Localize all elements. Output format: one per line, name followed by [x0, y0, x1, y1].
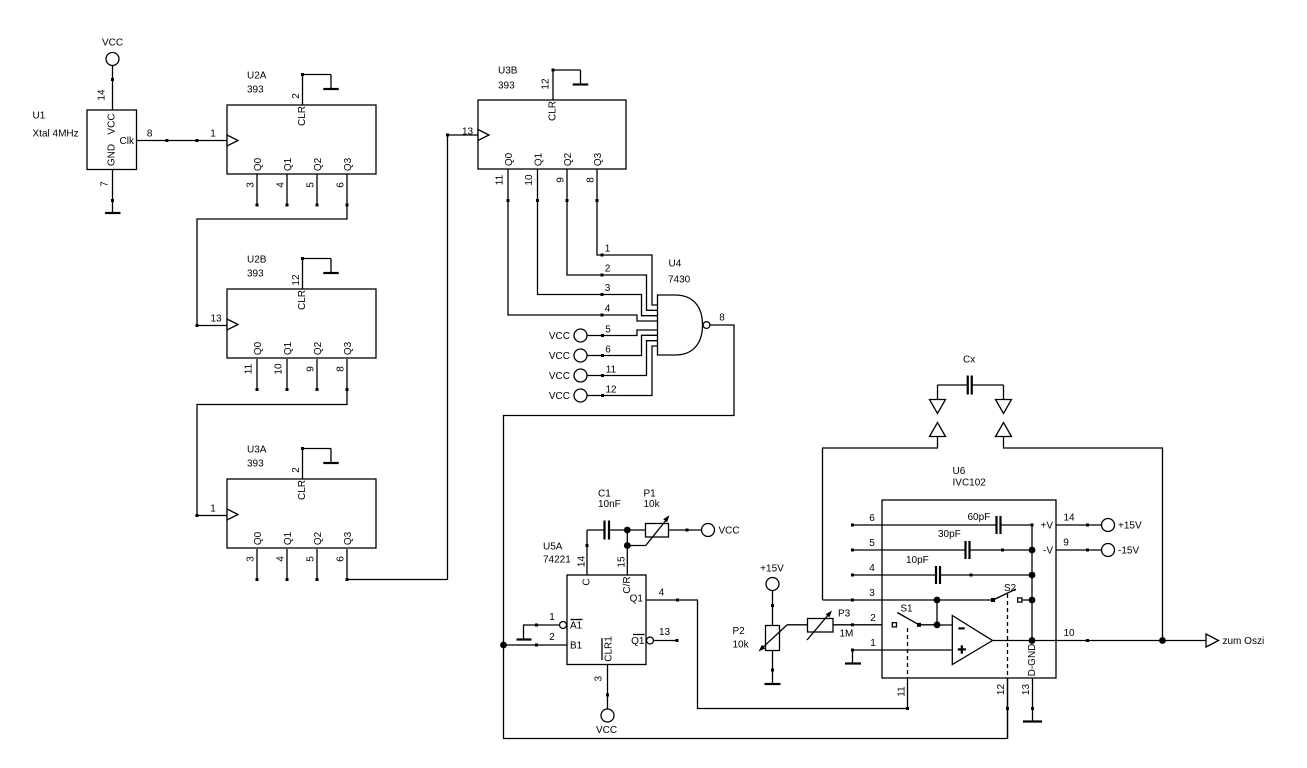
pin number 13 label U2B clock	[210, 314, 222, 325]
U4 reference designator	[669, 259, 682, 270]
nand gate U4 7430 body	[658, 295, 703, 355]
svg-text:Q1: Q1	[631, 636, 645, 647]
wire U2B Q0 pin 11	[256, 359, 259, 391]
U3B internal output label Q2	[563, 152, 574, 166]
svg-text:6: 6	[605, 345, 611, 356]
pin number 14 label U5A	[577, 556, 588, 568]
power +15V circle for U6	[1102, 519, 1142, 532]
svg-text:393: 393	[247, 85, 264, 96]
wire U5A C/R pin 15 to C1 P1 junction	[624, 527, 631, 575]
U3B internal output label Q3	[593, 152, 604, 166]
svg-text:CLR: CLR	[548, 101, 559, 121]
U5A internal pin label C	[582, 578, 593, 585]
U5A internal pin label B1	[570, 641, 583, 652]
svg-text:U3A: U3A	[247, 445, 267, 456]
svg-text:D-GND: D-GND	[1027, 644, 1038, 677]
svg-text:15: 15	[617, 556, 628, 568]
svg-text:Q1: Q1	[283, 341, 294, 355]
svg-text:7: 7	[100, 181, 111, 187]
potentiometer P2	[759, 625, 788, 652]
U6 value label IVC102	[953, 478, 987, 489]
svg-text:14: 14	[1063, 513, 1075, 524]
U5A internal pin label C/R	[622, 576, 633, 593]
svg-text:Q0: Q0	[504, 152, 515, 166]
wire U6 pin 12	[1007, 678, 1009, 739]
wire U5A A1 pin 1 to ground	[524, 624, 560, 640]
wire U2A Q2 pin 5	[316, 174, 319, 207]
U2B reference designator	[247, 255, 267, 266]
svg-text:11: 11	[495, 174, 506, 185]
wire U3A Q3 pin 6 to U3B clock pin 13	[346, 134, 479, 582]
svg-text:4: 4	[659, 588, 665, 599]
output net label zum Oszi	[1223, 636, 1265, 647]
svg-text:12: 12	[605, 385, 617, 396]
pin number 9 label U6	[1063, 538, 1069, 549]
pin number 5 label U2A Q2	[306, 182, 317, 188]
power VCC circle for U4 pin 11	[549, 369, 587, 382]
wire U3B Q3 pin 8 to U4 input 1	[596, 169, 658, 305]
svg-text:VCC: VCC	[549, 351, 570, 362]
U2A internal output label Q3	[343, 157, 354, 171]
switch S2	[937, 589, 1032, 602]
power VCC circle for U4 pin 12	[549, 389, 587, 402]
pin number 3 label U6	[869, 588, 875, 599]
svg-text:12: 12	[291, 274, 302, 286]
U5A internal pin label Q1 inverted	[631, 635, 645, 648]
svg-text:1M: 1M	[840, 629, 854, 640]
ground for P2	[765, 683, 781, 685]
wire U4 output pin 8 to U5A B1 pin 2 and U6 pin 12	[500, 325, 1009, 739]
wire U6 pin 3	[823, 599, 938, 602]
pin number 5 label U4	[605, 325, 611, 336]
svg-text:U2B: U2B	[247, 255, 267, 266]
pin number 6 label U2A Q3	[336, 182, 347, 188]
svg-text:Q1: Q1	[283, 157, 294, 171]
power VCC circle for U4 pin 5	[549, 329, 587, 342]
wire U3B Q2 pin 9 to U4 input 2	[566, 169, 658, 310]
U3A internal output label Q0	[253, 531, 264, 545]
svg-text:10pF: 10pF	[906, 555, 929, 566]
U5A A1 input inversion bubble	[560, 622, 567, 629]
counter U2A body	[227, 105, 376, 174]
U4 value label 7430	[668, 275, 691, 286]
svg-text:1: 1	[870, 638, 876, 649]
svg-text:C1: C1	[598, 489, 611, 500]
svg-text:12: 12	[996, 684, 1007, 696]
U2B internal pin label CLR	[297, 290, 308, 310]
svg-text:10: 10	[274, 363, 285, 375]
svg-text:VCC: VCC	[549, 331, 570, 342]
svg-text:12: 12	[541, 78, 552, 90]
wire U2B Q3 pin 8 to U3A clock pin 1	[196, 359, 349, 517]
svg-text:+15V: +15V	[760, 564, 784, 575]
svg-text:B1: B1	[570, 641, 583, 652]
svg-text:Q3: Q3	[343, 157, 354, 171]
potentiometer P1	[646, 515, 670, 545]
svg-text:+V: +V	[1040, 521, 1053, 532]
U6 internal pin label D-GND	[1027, 644, 1038, 677]
U3B internal pin label CLR	[548, 101, 559, 121]
U3A internal output label Q1	[283, 531, 294, 545]
svg-text:2: 2	[870, 613, 876, 624]
wire U2B Q1 pin 10	[286, 359, 289, 391]
wire U6 pin 4 stub	[851, 574, 882, 577]
svg-text:11: 11	[897, 686, 908, 697]
svg-text:10: 10	[524, 174, 535, 186]
svg-text:Q3: Q3	[343, 341, 354, 355]
U1 internal pin label Clk	[120, 136, 135, 147]
S2 reference designator	[1004, 583, 1017, 594]
svg-text:9: 9	[306, 366, 317, 372]
svg-text:CLR: CLR	[297, 106, 308, 126]
capacitor 60pF inside U6	[882, 512, 1034, 534]
svg-text:Q2: Q2	[313, 531, 324, 545]
wire U2A Q3 pin 6 to U2B clock pin 13	[196, 174, 349, 327]
pin number 2 label U6	[870, 613, 876, 624]
U6 internal pin label +V	[1040, 521, 1053, 532]
svg-text:14: 14	[577, 556, 588, 568]
svg-text:1: 1	[605, 244, 611, 255]
dashed switch link S1 to pin 11	[907, 628, 909, 678]
S1 reference designator	[900, 604, 913, 615]
U3B internal output label Q1	[534, 152, 545, 166]
svg-text:Q0: Q0	[253, 157, 264, 171]
potentiometer P3	[807, 611, 833, 641]
svg-text:10: 10	[1063, 628, 1075, 639]
U3A internal output label Q2	[313, 531, 324, 545]
wire U2A Q1 pin 4	[286, 174, 289, 207]
wire VCC to U4 input 12	[587, 346, 658, 397]
U5A value label 74221	[543, 555, 571, 566]
svg-text:11: 11	[244, 363, 255, 374]
power VCC circle for P1	[702, 524, 740, 537]
wire VCC to U4 input 11	[587, 341, 658, 377]
power VCC circle for U4 pin 6	[549, 349, 587, 362]
svg-text:8: 8	[336, 366, 347, 372]
svg-text:10k: 10k	[644, 499, 661, 510]
svg-text:Q3: Q3	[593, 152, 604, 166]
power -15V circle for U6	[1102, 544, 1140, 557]
svg-text:74221: 74221	[543, 555, 571, 566]
wire U3A CLR pin to ground	[301, 447, 331, 479]
P2 reference designator	[733, 626, 746, 637]
U3A clock input triangle	[227, 509, 238, 520]
svg-text:13: 13	[659, 627, 671, 638]
U2A internal output label Q0	[253, 157, 264, 171]
svg-text:393: 393	[247, 459, 264, 470]
svg-text:6: 6	[336, 182, 347, 188]
dashed switch link S2 to pin 12	[1007, 594, 1009, 678]
svg-text:4: 4	[605, 304, 611, 315]
pin number 12 label U3B CLR	[541, 78, 552, 90]
pin number 2 label U2A CLR	[291, 93, 302, 99]
counter U3A body	[227, 479, 376, 548]
pin number 12 label U6	[996, 684, 1007, 696]
svg-text:6: 6	[336, 556, 347, 562]
pin number 3 label U5A	[594, 675, 605, 681]
pin number 1 label U2A	[210, 129, 216, 140]
svg-text:6: 6	[869, 513, 875, 524]
pin number 14 label U6	[1063, 513, 1075, 524]
ground for U3A CLR	[323, 449, 339, 464]
Cx right terminal arrows	[996, 385, 1012, 437]
wire VCC to U4 input 6	[587, 335, 658, 357]
svg-text:C/R: C/R	[622, 576, 633, 593]
U2A reference designator	[247, 71, 267, 82]
svg-text:Q1: Q1	[534, 152, 545, 166]
pin number 8 label U4 output	[719, 313, 725, 324]
svg-text:393: 393	[247, 269, 264, 280]
svg-text:4: 4	[869, 563, 875, 574]
pin number 8 label U2B Q3	[336, 366, 347, 372]
U2B internal output label Q1	[283, 341, 294, 355]
svg-text:IVC102: IVC102	[953, 478, 987, 489]
U5A reference designator	[543, 542, 563, 553]
U3A reference designator	[247, 445, 267, 456]
wire +15V to P2	[771, 591, 774, 626]
crystal oscillator U1	[87, 110, 137, 170]
svg-text:Q2: Q2	[563, 152, 574, 166]
svg-text:2: 2	[605, 264, 611, 275]
op-amp U6A triangle	[952, 616, 992, 665]
wire U2B Q2 pin 9	[316, 359, 319, 391]
pin number 9 label U2B Q2	[306, 366, 317, 372]
pin number 13 label U5A	[659, 627, 671, 638]
U3A internal output label Q3	[343, 531, 354, 545]
switch S1	[892, 613, 940, 629]
svg-text:10k: 10k	[733, 640, 750, 651]
svg-text:VCC: VCC	[102, 38, 123, 49]
U3B reference designator	[498, 66, 518, 77]
wire P2 bottom to ground	[771, 651, 774, 685]
U3B clock input triangle	[478, 130, 489, 141]
wire Cx right terminal to output node	[1004, 437, 1163, 641]
svg-text:Q0: Q0	[253, 531, 264, 545]
ground for U6 pin 13	[1023, 720, 1042, 722]
svg-text:2: 2	[549, 632, 555, 643]
svg-text:S2: S2	[1004, 583, 1017, 594]
wire P1 to VCC	[669, 529, 702, 532]
wire U6 pin 5 stub	[851, 549, 882, 552]
svg-text:A1: A1	[570, 621, 583, 632]
wire U2A Q0 pin 3	[256, 174, 259, 207]
svg-text:C: C	[582, 578, 593, 585]
wire U5A C pin 14 to C1	[586, 530, 589, 575]
ground for U2A CLR	[323, 75, 339, 90]
capacitor C1	[587, 521, 646, 540]
pin number 15 label U5A	[617, 556, 628, 568]
wire U6 pin 1 to op-amp non-inverting input	[851, 649, 952, 664]
pin number 1 label U3A clock	[210, 504, 216, 515]
svg-text:CLR1: CLR1	[604, 636, 615, 662]
svg-text:1: 1	[549, 612, 555, 623]
pin number 4 label U5A	[659, 588, 665, 599]
svg-text:Cx: Cx	[963, 355, 975, 366]
svg-text:zum Oszi: zum Oszi	[1223, 636, 1265, 647]
svg-text:9: 9	[1063, 538, 1069, 549]
wire U6 -V pin 9 to -15V	[1056, 549, 1102, 552]
U5A internal pin label Q1	[630, 594, 644, 605]
svg-text:3: 3	[246, 182, 257, 188]
wire VCC to U1 pin 14	[111, 66, 114, 111]
pin number 4 label U4	[605, 304, 611, 315]
pin number 12 label U4	[605, 385, 617, 396]
svg-text:10nF: 10nF	[598, 499, 621, 510]
ground for U2B CLR	[323, 259, 339, 274]
svg-text:8: 8	[147, 129, 153, 140]
svg-text:7430: 7430	[668, 275, 691, 286]
wire U6 pin 13 to ground	[1031, 678, 1034, 722]
svg-text:GND: GND	[107, 144, 118, 166]
pin number 10 label U2B Q1	[274, 363, 285, 375]
U1 reference designator	[33, 111, 46, 122]
svg-text:CLR: CLR	[297, 290, 308, 310]
pin number 1 label U5A	[549, 612, 555, 623]
U2B clock input triangle	[227, 319, 238, 330]
svg-text:2: 2	[291, 93, 302, 99]
pin number 14 label U1	[97, 89, 108, 101]
pin number 13 label U3B clock	[462, 127, 474, 138]
wire VCC to U4 input 5	[587, 330, 658, 337]
svg-text:-15V: -15V	[1118, 546, 1139, 557]
svg-text:1: 1	[210, 504, 216, 515]
pin number 1 label U4	[605, 244, 611, 255]
svg-text:+15V: +15V	[1118, 521, 1142, 532]
svg-text:U3B: U3B	[498, 66, 518, 77]
wire U1 pin 7 to ground	[111, 170, 114, 214]
wire U5A Q1 inverted pin 13	[654, 639, 679, 642]
U3A value label 393	[247, 459, 264, 470]
monostable U5A body	[567, 575, 646, 665]
pin number 2 label U5A	[549, 632, 555, 643]
U6 reference designator	[953, 466, 966, 477]
svg-text:8: 8	[586, 177, 597, 183]
wire U5A CLR pin 3 to VCC	[606, 665, 609, 710]
capacitor 10pF inside U6	[882, 555, 1035, 584]
wire U6 +V pin 14 to +15V	[1056, 524, 1102, 527]
svg-text:Xtal 4MHz: Xtal 4MHz	[33, 129, 79, 140]
wire U3B Q0 pin 11 to U4 input 4	[507, 169, 658, 321]
pin number 12 label U2B CLR	[291, 274, 302, 286]
pin number 5 label U3A Q2	[306, 556, 317, 562]
ground for U1 pin 7	[105, 212, 121, 214]
U2A clock input triangle	[227, 135, 238, 146]
svg-text:Q2: Q2	[313, 157, 324, 171]
P3 value label 1M	[840, 629, 854, 640]
U3B internal output label Q0	[504, 152, 515, 166]
svg-text:P2: P2	[733, 626, 746, 637]
svg-text:U1: U1	[33, 111, 46, 122]
ground for U6 pin 1	[845, 662, 861, 664]
wire op-amp output pin 10 to output node	[993, 637, 1207, 644]
U2B value label 393	[247, 269, 264, 280]
pin number 6 label U4	[605, 345, 611, 356]
svg-text:5: 5	[306, 556, 317, 562]
svg-text:4: 4	[276, 556, 287, 562]
capacitor select bus inside U6	[1029, 525, 1036, 644]
svg-text:Q3: Q3	[343, 531, 354, 545]
svg-text:-V: -V	[1043, 546, 1053, 557]
pin number 13 label U6	[1021, 684, 1032, 696]
svg-text:5: 5	[869, 538, 875, 549]
U3B value label 393	[498, 81, 515, 92]
wire U6 pin 3 to op-amp inverting input	[937, 600, 952, 625]
svg-text:VCC: VCC	[719, 526, 740, 537]
power +15V circle for P2	[760, 564, 784, 591]
svg-text:5: 5	[306, 182, 317, 188]
svg-text:U6: U6	[953, 466, 966, 477]
wire P3 to U6 pin 2 switch S1	[833, 623, 892, 626]
U1 internal pin label GND	[107, 144, 118, 166]
svg-text:14: 14	[97, 89, 108, 101]
wire U1 pin 8 to U2A pin 1	[137, 139, 228, 142]
wire U5A B1 pin 2	[504, 644, 568, 647]
P1 value label 10k	[644, 499, 661, 510]
U2B internal output label Q2	[313, 341, 324, 355]
pin number 4 label U2A Q1	[276, 182, 287, 188]
pin number 4 label U3A Q1	[276, 556, 287, 562]
svg-text:U2A: U2A	[247, 71, 267, 82]
svg-text:3: 3	[869, 588, 875, 599]
svg-text:Clk: Clk	[120, 136, 135, 147]
C1 value label 10nF	[598, 499, 621, 510]
svg-text:13: 13	[1021, 684, 1032, 696]
svg-text:13: 13	[210, 314, 222, 325]
wire U3B CLR pin 12 to ground	[552, 69, 581, 101]
svg-text:Q0: Q0	[253, 341, 264, 355]
capacitor 30pF inside U6	[882, 529, 1035, 559]
svg-text:3: 3	[246, 556, 257, 562]
pin number 11 label U6	[897, 686, 908, 697]
wire U5A Q1 pin 4 to U6 pin 11	[646, 599, 909, 711]
pin number 9 label U3B Q2	[556, 177, 567, 183]
svg-text:30pF: 30pF	[938, 529, 961, 540]
svg-text:VCC: VCC	[549, 371, 570, 382]
C1 reference designator	[598, 489, 611, 500]
Cx left terminal arrows	[930, 385, 946, 437]
svg-text:VCC: VCC	[596, 725, 617, 736]
svg-text:VCC: VCC	[107, 113, 118, 134]
pin number 6 label U6	[869, 513, 875, 524]
svg-text:3: 3	[594, 675, 605, 681]
svg-text:CLR: CLR	[297, 480, 308, 500]
pin number 3 label U3A Q0	[246, 556, 257, 562]
wire U6 pin 11	[907, 678, 909, 709]
counter U2B body	[227, 289, 376, 358]
svg-text:U5A: U5A	[543, 542, 563, 553]
power VCC supply circle for U1	[102, 38, 123, 66]
svg-text:9: 9	[556, 177, 567, 183]
wire P2 wiper to P3	[788, 624, 808, 626]
op-amp non-inverting input plus sign	[958, 645, 966, 653]
svg-text:VCC: VCC	[549, 391, 570, 402]
U2B internal output label Q0	[253, 341, 264, 355]
wire U6 pin 6 stub	[851, 524, 882, 527]
pin number 11 label U3B Q0	[495, 174, 506, 185]
pin number 6 label U3A Q3	[336, 556, 347, 562]
pin number 5 label U6	[869, 538, 875, 549]
svg-text:Q2: Q2	[313, 341, 324, 355]
svg-text:Q1: Q1	[630, 594, 644, 605]
U5A Q1 inverted output bubble	[647, 637, 654, 644]
U3A internal pin label CLR	[297, 480, 308, 500]
svg-text:11: 11	[606, 365, 617, 376]
svg-text:U4: U4	[669, 259, 682, 270]
wire U3A Q2 pin 5	[316, 549, 319, 581]
power VCC circle for U5A pin 3	[596, 709, 617, 736]
pin number 8 label U1	[147, 129, 153, 140]
svg-text:2: 2	[291, 467, 302, 473]
